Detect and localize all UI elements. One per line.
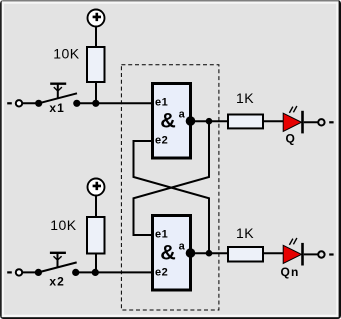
switch x2 <box>35 253 79 276</box>
nand gate U1 <box>153 84 191 159</box>
svg-text:1K: 1K <box>236 225 254 241</box>
node N1 junction <box>92 100 99 107</box>
frame bottom edge <box>0 317 341 319</box>
svg-text:x1: x1 <box>49 101 65 115</box>
wire V1 to R1 <box>95 27 97 48</box>
frame left edge <box>0 0 2 319</box>
output bubble U1a <box>186 116 196 126</box>
terminal T2 <box>7 269 22 275</box>
dashed latch box <box>121 65 218 310</box>
power supply V2 <box>88 179 105 196</box>
wire T1 to switch x1 <box>22 102 38 104</box>
node Qn junction <box>206 250 213 257</box>
svg-text:e2: e2 <box>155 266 168 278</box>
wire U1a to R3 <box>191 120 228 122</box>
switch x1 <box>35 84 80 107</box>
wire D1 to terminal T3 <box>304 121 318 123</box>
wire R3 to LED D1 <box>264 120 284 122</box>
resistor R4 <box>228 247 263 262</box>
LED D2 Qn <box>283 238 304 266</box>
wire T2 to switch x2 <box>22 271 38 273</box>
svg-text:e1: e1 <box>155 96 168 108</box>
frame right edge <box>339 0 341 319</box>
svg-text:a: a <box>179 108 186 120</box>
node Q junction <box>206 118 213 125</box>
terminal T1 <box>7 100 22 106</box>
wire D2 to terminal T4 <box>304 253 318 255</box>
svg-text:&: & <box>160 109 176 133</box>
svg-text:e2: e2 <box>155 134 168 146</box>
wire U2.e1 cross-coupling from U1 output <box>134 121 210 235</box>
svg-text:&: & <box>160 240 176 264</box>
node N2 junction <box>92 269 99 276</box>
wire R1 to node N1 <box>95 83 97 103</box>
svg-text:10K: 10K <box>53 46 80 62</box>
svg-text:x2: x2 <box>49 275 65 289</box>
output bubble U2a <box>186 248 196 258</box>
wire R2 to node N2 <box>95 254 97 273</box>
svg-text:Q: Q <box>286 132 297 146</box>
wire x2 to gate U2 e2 <box>76 271 151 273</box>
svg-text:Qn: Qn <box>281 265 300 279</box>
resistor R1 <box>87 47 105 82</box>
svg-text:a: a <box>179 240 186 252</box>
wire U1.e2 cross-coupling from U2 output <box>134 141 210 253</box>
power supply V1 <box>88 10 105 27</box>
terminal T3 <box>318 119 333 125</box>
svg-text:e1: e1 <box>155 228 168 240</box>
nand gate U2 <box>153 216 191 291</box>
frame top edge <box>0 0 341 2</box>
svg-text:1K: 1K <box>236 90 254 106</box>
terminal T4 <box>318 251 333 257</box>
svg-text:10K: 10K <box>50 217 77 233</box>
wire V2 to R2 <box>95 196 97 218</box>
wire x1 to gate U1 e1 <box>77 102 151 104</box>
LED D1 Q <box>283 106 304 133</box>
wire R4 to LED D2 <box>264 252 284 254</box>
wire U2a to R4 <box>191 252 228 254</box>
resistor R3 <box>228 115 263 129</box>
resistor R2 <box>87 217 105 254</box>
